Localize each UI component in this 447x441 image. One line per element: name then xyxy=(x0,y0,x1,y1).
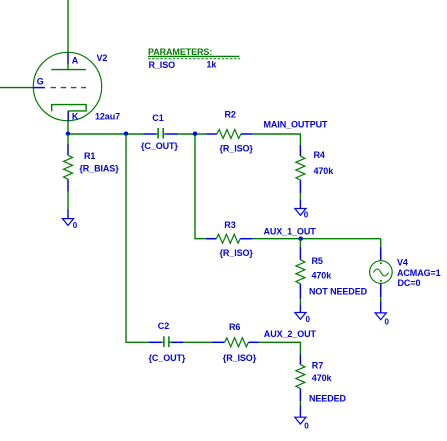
anode plate bar xyxy=(51,69,86,71)
wire grid feed xyxy=(0,87,33,89)
anode internal lead xyxy=(67,64,69,70)
svg-text:A: A xyxy=(72,56,79,66)
capacitor C2 right pin (blue) xyxy=(172,341,184,343)
triode V2 envelope circle xyxy=(33,52,101,120)
resistor R4 bottom pin (blue) xyxy=(299,180,301,193)
wire R7 to ground xyxy=(299,401,301,405)
svg-text:C2: C2 xyxy=(158,321,169,331)
svg-text:K: K xyxy=(72,112,79,122)
resistor R7 zigzag xyxy=(296,365,305,389)
svg-text:R1: R1 xyxy=(84,151,95,161)
resistor R4 top pin (blue) xyxy=(299,145,301,156)
svg-text:470k: 470k xyxy=(314,166,335,176)
ground 0 below R1 xyxy=(62,209,73,226)
svg-text:0: 0 xyxy=(73,221,78,230)
source V4 plus terminal dot xyxy=(380,262,382,264)
resistor R2 left pin (blue) xyxy=(206,133,217,135)
ground 0 below R5 xyxy=(295,305,306,320)
wire V4 to ground xyxy=(380,297,382,301)
wire main row: junction to C1 xyxy=(68,133,144,135)
svg-text:{C_OUT}: {C_OUT} xyxy=(149,353,186,363)
capacitor C1 xyxy=(156,128,167,139)
resistor R6 zigzag xyxy=(225,338,249,347)
resistor R5 bottom pin (blue) xyxy=(299,284,301,299)
resistor R3 left pin (blue) xyxy=(206,238,217,240)
svg-text:R3: R3 xyxy=(224,220,235,230)
svg-text:AUX_2_OUT: AUX_2_OUT xyxy=(264,329,317,339)
resistor R1 zigzag xyxy=(64,155,73,179)
svg-text:R2: R2 xyxy=(225,109,236,119)
resistor R6 right pin (blue) xyxy=(249,341,259,343)
wire R5 to ground xyxy=(299,299,301,305)
node junction dot at cathode column xyxy=(66,132,70,136)
wire top feed to anode xyxy=(67,0,69,52)
svg-text:PARAMETERS:: PARAMETERS: xyxy=(148,47,212,57)
resistor R1 bottom pin (blue) xyxy=(67,179,69,192)
wire C2 to R6 xyxy=(184,341,212,343)
svg-text:C1: C1 xyxy=(152,113,163,123)
svg-text:R_ISO: R_ISO xyxy=(149,60,176,70)
V4 bottom pin (blue) xyxy=(380,283,382,297)
junction dot AUX_1_OUT xyxy=(299,237,303,241)
parameters underline solid xyxy=(148,55,240,57)
svg-text:{C_OUT}: {C_OUT} xyxy=(141,141,178,151)
wire R1 to ground xyxy=(67,192,69,209)
wire down to V4 xyxy=(380,239,382,247)
source V4 sine xyxy=(373,269,388,276)
resistor R3 zigzag xyxy=(216,234,240,243)
svg-text:0: 0 xyxy=(306,315,311,324)
wire AUX_1_OUT down to R5 xyxy=(299,239,301,247)
svg-text:0: 0 xyxy=(304,422,309,431)
wire long vertical to C2 branch xyxy=(126,134,149,342)
svg-text:V4: V4 xyxy=(397,257,408,267)
svg-text:AUX_1_OUT: AUX_1_OUT xyxy=(264,226,317,236)
wire cathode to junction xyxy=(67,122,69,134)
ground 0 below R7 xyxy=(295,406,306,425)
svg-text:R4: R4 xyxy=(314,150,325,160)
svg-text:R7: R7 xyxy=(312,360,323,370)
svg-text:1k: 1k xyxy=(207,60,218,70)
resistor R3 right pin (blue) xyxy=(240,238,252,240)
wire vertical to R3 branch xyxy=(195,134,206,239)
svg-text:12au7: 12au7 xyxy=(95,111,120,121)
wire R6 to AUX_2_OUT corner xyxy=(259,342,301,354)
resistor R5 top pin (blue) xyxy=(299,247,301,260)
resistor R6 left pin (blue) xyxy=(212,341,225,343)
svg-text:{R_ISO}: {R_ISO} xyxy=(220,143,254,153)
svg-text:DC=0: DC=0 xyxy=(398,278,421,288)
pin K (cathode pin, blue) xyxy=(67,111,69,122)
capacitor C1 right pin (blue) xyxy=(166,133,178,135)
svg-text:G: G xyxy=(37,76,44,86)
cathode electrode bracket xyxy=(52,105,86,112)
V4 top pin (blue) xyxy=(380,247,382,261)
resistor R5 zigzag xyxy=(296,260,305,284)
svg-text:470k: 470k xyxy=(312,270,333,280)
svg-text:0: 0 xyxy=(385,318,390,327)
pin A (anode pin, blue) xyxy=(67,52,69,64)
svg-text:470k: 470k xyxy=(312,373,333,383)
resistor R2 zigzag xyxy=(217,130,241,139)
wire R2 to MAIN_OUTPUT corner xyxy=(252,134,300,145)
svg-text:R6: R6 xyxy=(229,322,240,332)
capacitor C2 xyxy=(161,336,172,347)
ground 0 below R4 xyxy=(295,199,306,215)
junction dot to C2 branch xyxy=(124,132,128,136)
svg-text:{R_ISO}: {R_ISO} xyxy=(223,353,257,363)
wire R4 to ground xyxy=(299,193,301,199)
wire C1 to R2 xyxy=(178,133,206,135)
svg-text:NEEDED: NEEDED xyxy=(309,394,347,404)
resistor R2 right pin (blue) xyxy=(241,133,253,135)
svg-text:{R_BIAS}: {R_BIAS} xyxy=(79,164,119,174)
svg-text:MAIN_OUTPUT: MAIN_OUTPUT xyxy=(264,119,329,129)
ground 0 below V4 xyxy=(375,301,386,319)
resistor R4 zigzag xyxy=(296,156,305,180)
wire junction to R1 xyxy=(67,134,69,144)
svg-text:ACMAG=1: ACMAG=1 xyxy=(397,268,441,278)
capacitor C2 left pin (blue) xyxy=(149,341,161,343)
svg-text:V2: V2 xyxy=(97,53,108,63)
junction dot at R3 column xyxy=(193,132,197,136)
resistor R7 top pin (blue) xyxy=(299,355,301,365)
svg-text:R5: R5 xyxy=(312,256,323,266)
source V4 circle xyxy=(370,261,393,284)
capacitor C1 left pin (blue) xyxy=(144,133,156,135)
pin G (grid pin, blue) xyxy=(33,87,45,89)
grid dashed electrode xyxy=(51,87,87,89)
resistor R1 top pin (blue) xyxy=(67,144,69,156)
source V4 minus terminal dot xyxy=(380,280,382,282)
parameters underline dashed xyxy=(148,58,240,60)
svg-text:{R_ISO}: {R_ISO} xyxy=(220,248,254,258)
svg-text:0: 0 xyxy=(304,211,309,220)
svg-text:NOT NEEDED: NOT NEEDED xyxy=(309,286,368,296)
resistor R7 bottom pin (blue) xyxy=(299,389,301,402)
wire R3 to V4 column through AUX_1_OUT xyxy=(252,238,380,240)
